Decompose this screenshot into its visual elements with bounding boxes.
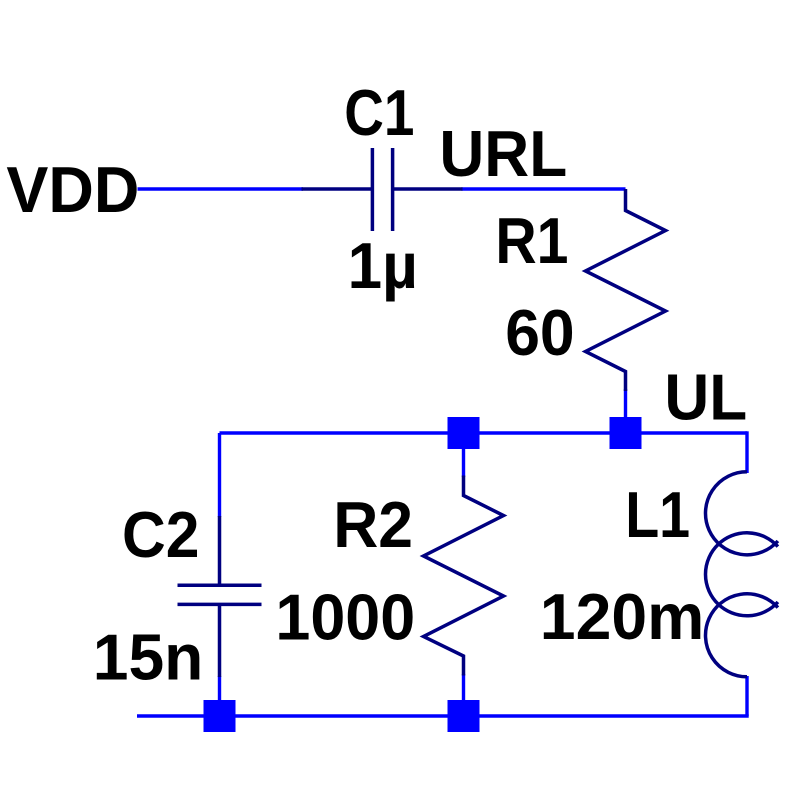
inductor L1 xyxy=(705,472,777,677)
node junction at rail/R1 UL xyxy=(610,417,642,449)
svg-text:R2: R2 xyxy=(333,488,413,561)
resistor R1 xyxy=(586,189,666,391)
wire L1 bottom to rail corner xyxy=(745,676,748,716)
node junction at bottom/R2 xyxy=(448,700,480,732)
svg-text:C1: C1 xyxy=(344,76,414,149)
svg-text:120m: 120m xyxy=(540,580,705,653)
resistor R2 xyxy=(424,476,504,676)
svg-text:L1: L1 xyxy=(625,478,690,551)
svg-text:1µ: 1µ xyxy=(348,229,418,302)
wire bottom rail xyxy=(137,714,749,717)
wire C2 branch upper xyxy=(218,433,221,517)
capacitor C1 xyxy=(302,148,463,231)
svg-text:15n: 15n xyxy=(93,620,204,693)
wire R1 bottom lead to node UL xyxy=(624,389,627,433)
wire C2 branch lower xyxy=(218,676,221,716)
svg-text:60: 60 xyxy=(505,296,575,369)
wire R2 top lead xyxy=(462,433,465,477)
svg-text:R1: R1 xyxy=(495,204,568,277)
svg-text:URL: URL xyxy=(439,117,567,190)
wire C1 to R1 corner xyxy=(462,187,626,190)
wire top rail right corner down to L1 xyxy=(745,431,748,473)
wire top rail node to node xyxy=(220,431,748,434)
svg-text:VDD: VDD xyxy=(6,153,139,226)
node junction at bottom/C2 xyxy=(204,700,236,732)
svg-text:1000: 1000 xyxy=(275,581,415,654)
wire VDD to C1 xyxy=(138,187,304,190)
wire R2 bottom lead xyxy=(462,674,465,716)
svg-text:UL: UL xyxy=(664,361,747,434)
node junction at rail/R2 top xyxy=(448,417,480,449)
capacitor C2 xyxy=(178,516,262,677)
svg-text:C2: C2 xyxy=(122,498,199,571)
